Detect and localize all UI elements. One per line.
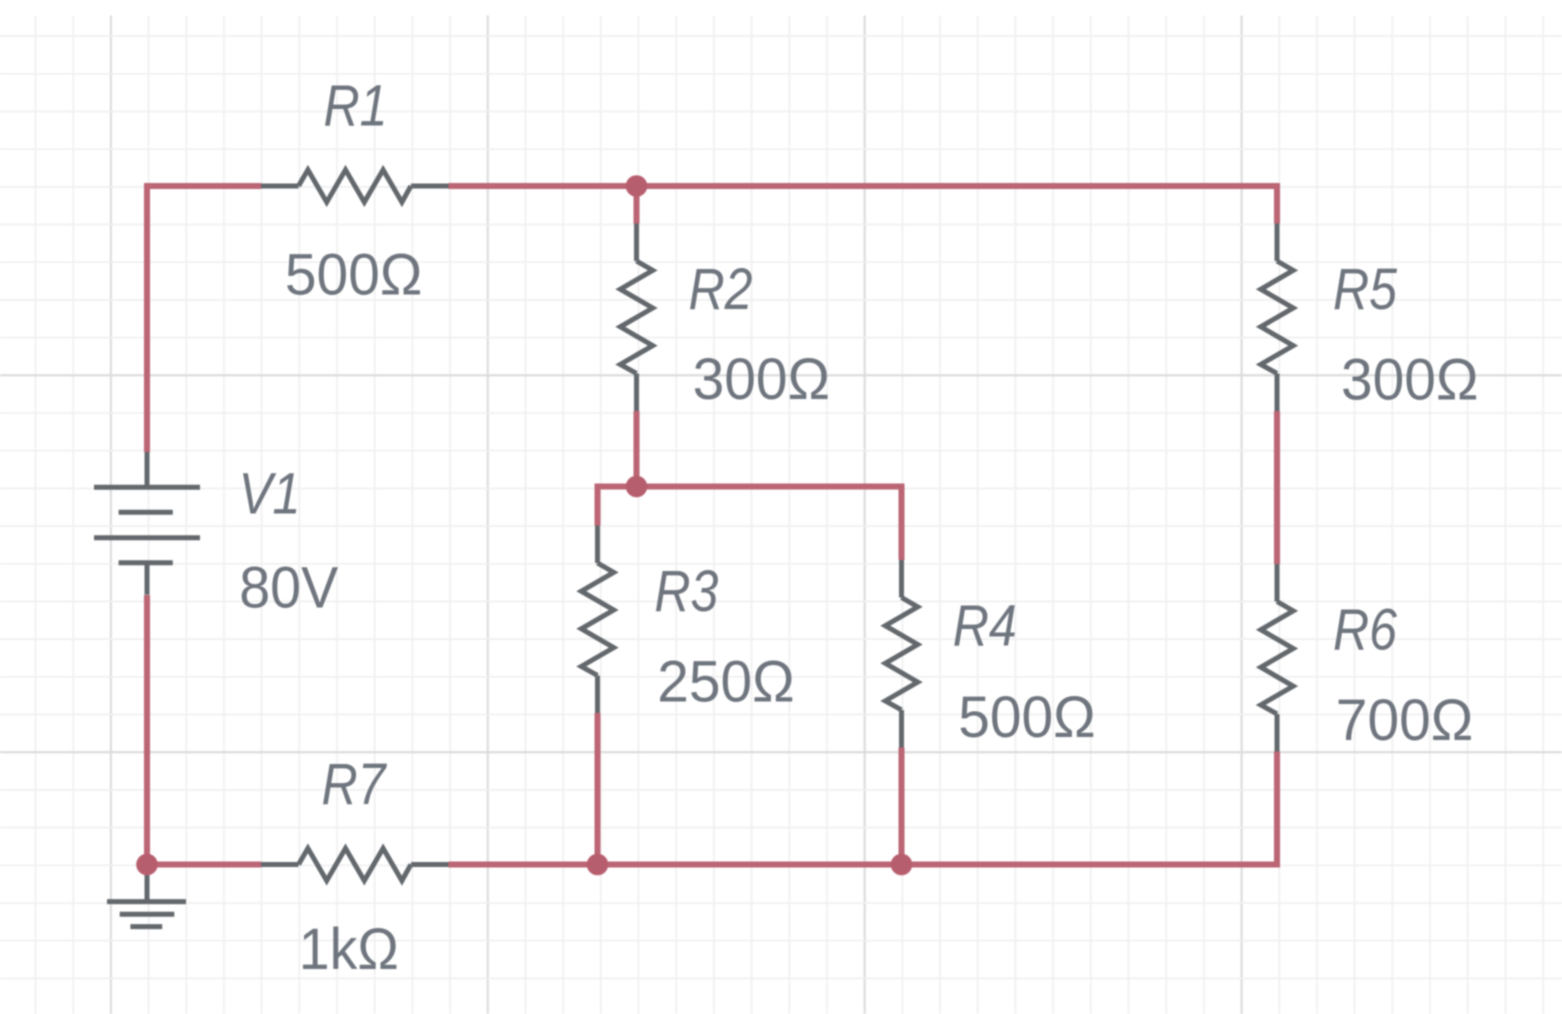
wire: middle horizontal node B rail with corners down to R3 and R4 [598,487,902,561]
wire: top-left corner, battery top to R1 left [147,186,261,452]
wire: R3 bottom to bottom rail node C [595,713,601,868]
svg-text:R2: R2 [689,257,753,322]
resistor R1 [261,184,299,189]
wire: R4 bottom to bottom rail node D [899,748,905,868]
node B junction dot [626,476,648,498]
ground node junction dot [136,854,158,876]
wire: R5 bottom to R6 top [1274,411,1280,564]
svg-text:80V: 80V [239,556,338,621]
svg-text:R3: R3 [654,559,718,624]
svg-text:R1: R1 [324,73,388,138]
wire: battery bottom down to ground node, right to R7 left [147,595,261,865]
node A junction dot [626,175,648,197]
wire: top horizontal from R1 right through node A to right corner, down to R5 [449,186,1278,224]
svg-text:R5: R5 [1333,257,1398,322]
svg-text:500Ω: 500Ω [958,685,1095,750]
node C junction dot [587,854,609,876]
ground [107,865,186,927]
svg-text:300Ω: 300Ω [693,347,831,412]
wire: bottom rail node D to node C to R7 right [449,862,902,868]
resistor R7 [261,862,299,867]
svg-text:500Ω: 500Ω [285,242,423,307]
resistor R5 [1275,224,1280,262]
svg-text:700Ω: 700Ω [1336,688,1474,753]
resistor R2 [634,224,639,262]
node D junction dot [891,854,913,876]
svg-text:V1: V1 [239,461,301,526]
resistor R6 [1275,564,1280,602]
svg-text:300Ω: 300Ω [1341,348,1479,413]
wire: R2 top stub from node A [634,183,640,224]
svg-text:R4: R4 [953,594,1017,659]
svg-text:R7: R7 [322,752,388,817]
battery V1 [94,452,200,595]
resistor R3 [595,526,600,564]
svg-text:R6: R6 [1333,598,1398,663]
svg-text:1kΩ: 1kΩ [299,917,399,982]
svg-text:250Ω: 250Ω [657,650,795,715]
wire: R6 bottom, bottom-right corner, left to node D [902,752,1278,865]
wire: R2 bottom to node B [634,411,640,490]
resistor R4 [899,560,904,598]
